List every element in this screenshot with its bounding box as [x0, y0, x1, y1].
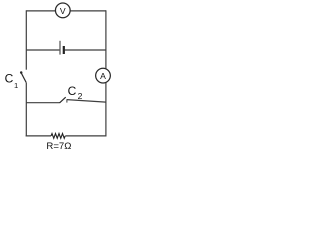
svg-text:R=7Ω: R=7Ω	[46, 141, 71, 152]
svg-text:C: C	[68, 84, 77, 98]
switch C2 blade	[60, 97, 66, 103]
svg-text:C: C	[5, 71, 14, 85]
wire bottom edge right of resistor	[65, 135, 106, 137]
battery short thick plate	[63, 46, 65, 54]
wire bottom edge left of resistor	[26, 135, 51, 137]
battery wire left segment	[26, 49, 59, 51]
resistor R zigzag	[51, 134, 65, 139]
svg-text:V: V	[60, 6, 66, 16]
battery long plate	[59, 41, 61, 55]
svg-text:A: A	[100, 71, 106, 81]
svg-text:1: 1	[14, 81, 18, 90]
ammeter A circle	[96, 68, 111, 83]
switch C2 wire left segment	[26, 102, 59, 104]
wire left edge upper (above switch C1)	[25, 10, 27, 69]
wire right edge	[105, 10, 107, 136]
svg-text:2: 2	[78, 91, 83, 101]
switch C1 pivot dot	[20, 71, 23, 74]
battery wire right segment	[65, 49, 106, 51]
switch C1 blade	[21, 72, 26, 82]
voltmeter U=V circle	[55, 3, 70, 18]
switch C2 wire right segment (slightly sloped)	[67, 100, 106, 103]
wire top edge	[26, 10, 106, 12]
wire left edge lower (below switch C1)	[25, 83, 27, 137]
switch C2 right contact tick	[66, 99, 68, 102]
